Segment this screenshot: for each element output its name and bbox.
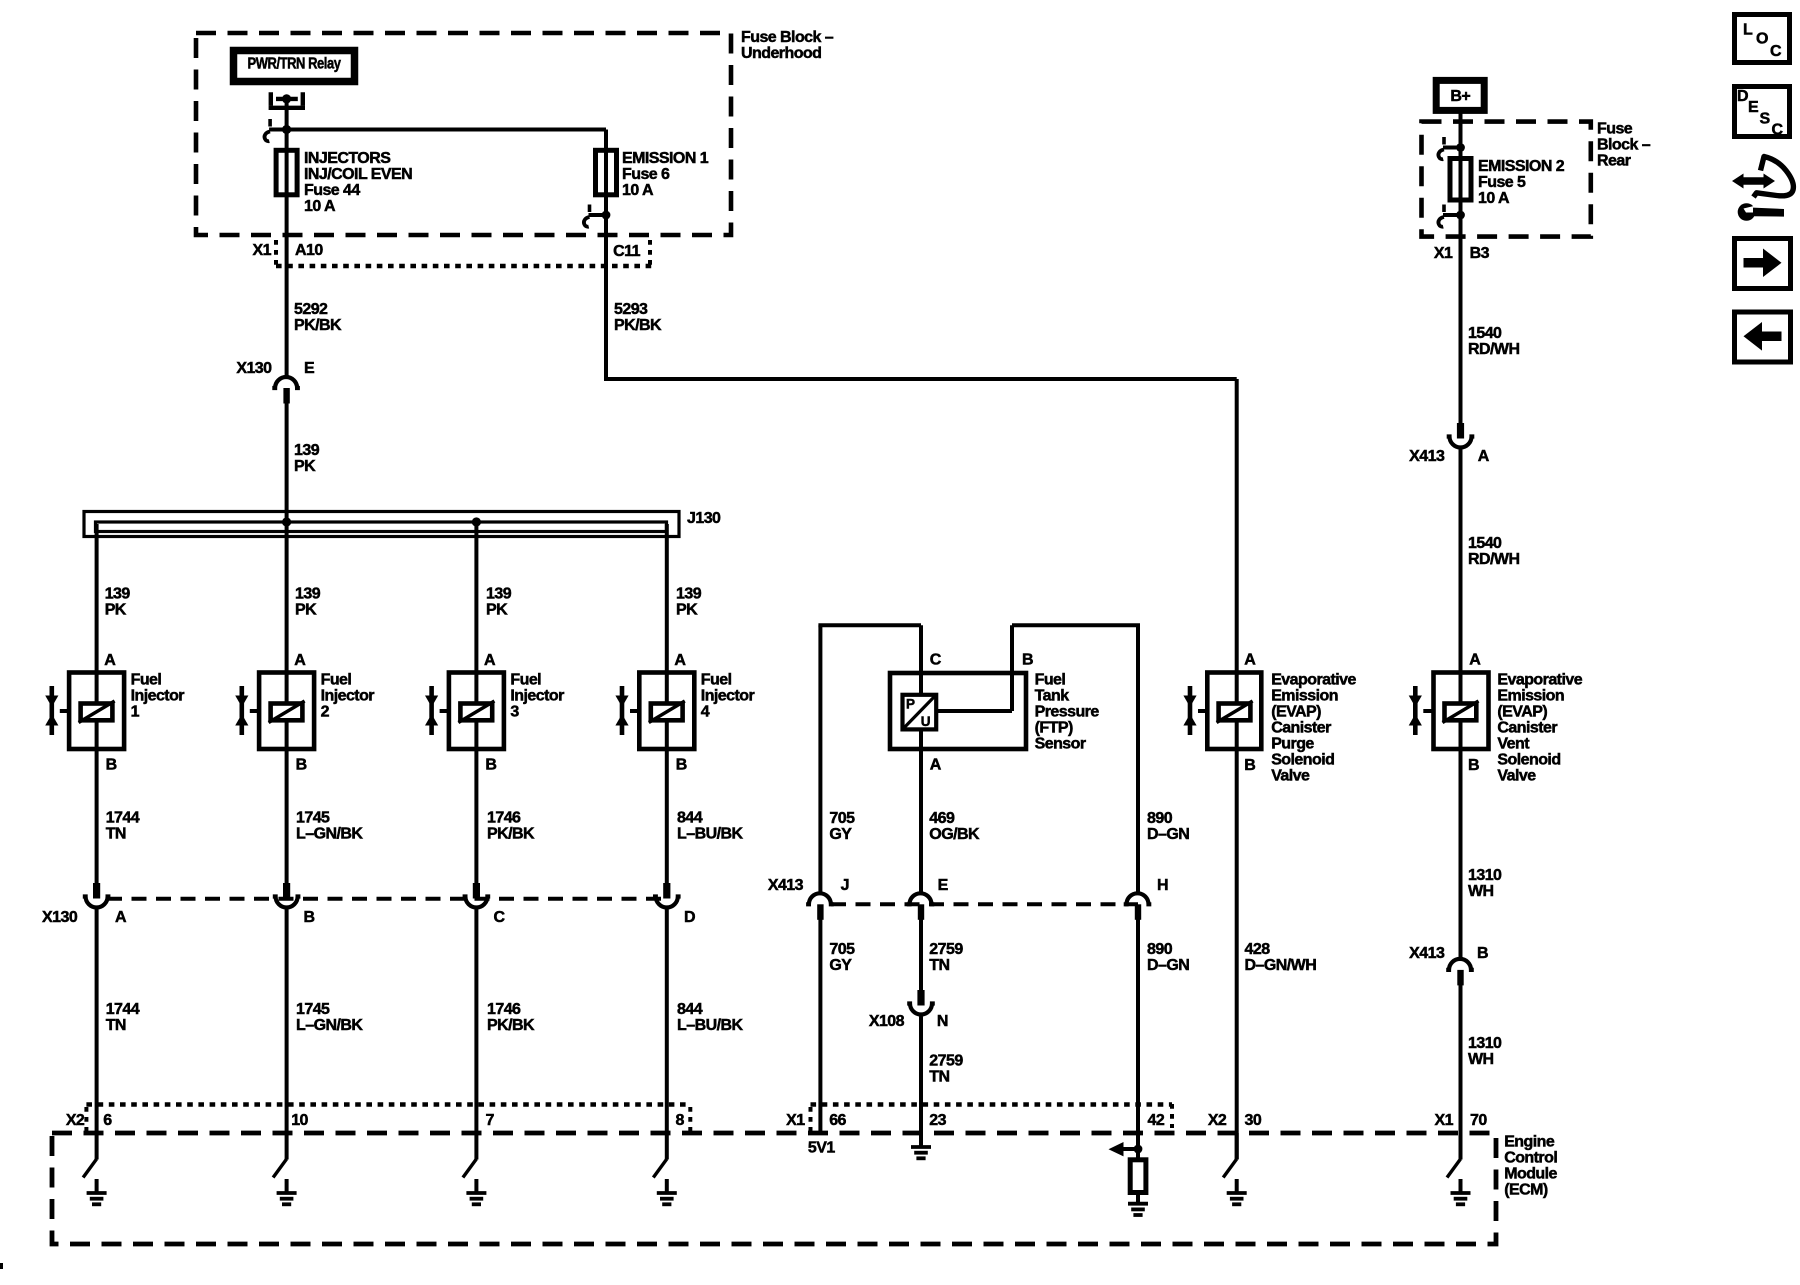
pin 8 label <box>676 1112 685 1129</box>
svg-text:139: 139 <box>486 586 512 603</box>
wire X130 B to ECM <box>285 910 289 1134</box>
fuse F44 INJECTORS <box>276 150 297 195</box>
FTP sensor internal P/U transducer <box>903 695 937 730</box>
svg-text:RD/WH: RD/WH <box>1468 551 1519 568</box>
svg-text:10 A: 10 A <box>622 182 654 199</box>
injector 2 pin A <box>294 652 306 669</box>
FTP pin C letter <box>930 651 942 668</box>
svg-text:RD/WH: RD/WH <box>1468 341 1519 358</box>
pin label X1 right <box>1435 1112 1454 1129</box>
svg-text:N: N <box>937 1013 948 1030</box>
svg-text:10 A: 10 A <box>304 198 336 215</box>
wire label 1744 lower <box>106 1001 140 1034</box>
svg-text:X413: X413 <box>1409 448 1445 465</box>
wire vent valve B down <box>1459 749 1463 959</box>
pin C11 <box>613 243 640 260</box>
svg-text:2: 2 <box>321 704 330 721</box>
wire relay output stem <box>285 101 289 377</box>
svg-text:1310: 1310 <box>1468 867 1502 884</box>
svg-text:4: 4 <box>701 704 710 721</box>
connector X108 pin N <box>907 990 935 1015</box>
fuel tank pressure sensor box <box>890 673 1026 749</box>
svg-text:X413: X413 <box>768 877 804 894</box>
wire fuse6 to evap purge valve <box>604 130 1237 674</box>
connector X413 pin H letter <box>1157 877 1168 894</box>
wire B+ to fuse 5 <box>1459 110 1463 424</box>
wire label 705 GY mid <box>829 941 855 974</box>
wire label 2759 TN mid <box>929 941 963 974</box>
svg-text:E: E <box>304 360 315 377</box>
svg-text:B: B <box>304 909 315 926</box>
svg-text:Fuse 6: Fuse 6 <box>622 166 670 183</box>
pin 6 label <box>103 1112 112 1129</box>
svg-text:L–GN/BK: L–GN/BK <box>296 825 363 842</box>
svg-text:42: 42 <box>1148 1112 1165 1129</box>
connector X130 row dashed line <box>107 897 668 901</box>
svg-text:C: C <box>1770 43 1782 60</box>
wire label 1310 WH upper <box>1468 867 1502 900</box>
svg-text:EMISSION 1: EMISSION 1 <box>622 150 709 167</box>
svg-text:C11: C11 <box>613 243 640 260</box>
wire FTP pin A down <box>919 729 923 893</box>
svg-text:Sensor: Sensor <box>1035 736 1086 753</box>
connector X130 pin A <box>83 883 111 908</box>
connector face X1 underhood dotted line <box>276 240 652 266</box>
pin label X1 <box>253 242 272 259</box>
svg-text:TN: TN <box>929 1069 949 1086</box>
svg-text:1540: 1540 <box>1468 535 1502 552</box>
svg-text:D: D <box>1737 88 1748 105</box>
svg-text:U: U <box>921 714 930 729</box>
connector X413 row dashed line <box>831 902 1138 906</box>
svg-text:Fuse 44: Fuse 44 <box>304 182 360 199</box>
svg-text:O: O <box>1756 31 1768 48</box>
net 5V1 label <box>808 1140 835 1157</box>
relay output clip <box>265 119 287 141</box>
fuse F6 EMISSION 1 <box>596 150 617 195</box>
svg-text:X108: X108 <box>869 1013 905 1030</box>
svg-text:X413: X413 <box>1409 945 1445 962</box>
svg-text:10 A: 10 A <box>1478 190 1510 207</box>
svg-text:B+: B+ <box>1450 88 1470 105</box>
svg-text:PK/BK: PK/BK <box>487 825 535 842</box>
wire 5293 PK/BK label <box>614 301 662 334</box>
ground ECM pin 70 <box>1447 1133 1471 1204</box>
connector X413 pin A <box>1447 423 1475 448</box>
arrow to other circuit at pin 42 <box>1109 1142 1139 1156</box>
svg-text:E: E <box>938 877 949 894</box>
svg-text:D–GN/WH: D–GN/WH <box>1245 957 1317 974</box>
svg-text:(EVAP): (EVAP) <box>1271 704 1321 721</box>
connector X130 pin B <box>273 883 301 908</box>
svg-text:Evaporative: Evaporative <box>1271 672 1356 689</box>
wire label 1540 RD/WH upper <box>1468 325 1519 358</box>
icon LOC box <box>1735 15 1790 63</box>
svg-text:1744: 1744 <box>106 1001 140 1018</box>
fuse F5 label <box>1478 158 1565 207</box>
connector X130 pin B letter <box>304 909 315 926</box>
wire X413 B to ECM pin 70 <box>1459 985 1463 1160</box>
svg-text:X2: X2 <box>66 1112 85 1129</box>
svg-text:3: 3 <box>510 704 519 721</box>
svg-text:1745: 1745 <box>296 1001 330 1018</box>
svg-text:2759: 2759 <box>929 941 963 958</box>
svg-text:Control: Control <box>1504 1150 1557 1167</box>
svg-text:Fuel: Fuel <box>321 672 352 689</box>
svg-text:B: B <box>1244 757 1255 774</box>
engine control module label <box>1504 1134 1557 1199</box>
svg-text:890: 890 <box>1147 810 1173 827</box>
svg-text:A: A <box>484 652 496 669</box>
svg-text:Injector: Injector <box>701 688 755 705</box>
pin label X2 left <box>66 1112 85 1129</box>
connector X413 B labels <box>1409 945 1488 962</box>
svg-text:Evaporative: Evaporative <box>1497 672 1582 689</box>
svg-text:1746: 1746 <box>487 809 521 826</box>
wire injector 1 pin B down <box>95 749 99 884</box>
wire X413 E to X108 <box>919 920 923 991</box>
svg-text:X1: X1 <box>253 242 272 259</box>
svg-text:OG/BK: OG/BK <box>929 826 980 843</box>
svg-text:WH: WH <box>1468 883 1494 900</box>
vent valve pin A letter <box>1469 651 1481 668</box>
svg-text:Purge: Purge <box>1271 736 1314 753</box>
svg-text:L–BU/BK: L–BU/BK <box>677 825 743 842</box>
injector 1 pin B <box>106 757 117 774</box>
svg-text:Fuel: Fuel <box>1035 672 1066 689</box>
pin 7 label <box>486 1112 495 1129</box>
svg-text:D–GN: D–GN <box>1147 826 1189 843</box>
svg-text:Tank: Tank <box>1035 688 1070 705</box>
ground ECM pin 30 <box>1223 1133 1247 1204</box>
pin label X2 right <box>1208 1112 1227 1129</box>
svg-text:PK/BK: PK/BK <box>294 317 342 334</box>
svg-text:Valve: Valve <box>1497 768 1536 785</box>
fuse F5 EMISSION 2 <box>1450 159 1471 201</box>
FTP pin B letter <box>1022 651 1033 668</box>
svg-text:S: S <box>1760 110 1771 127</box>
wire ECM pin 66 stub <box>818 1133 822 1135</box>
ground ECM pin 7 <box>463 1133 487 1204</box>
wire FTP pin B harness <box>1012 625 1140 893</box>
svg-text:705: 705 <box>829 941 855 958</box>
svg-text:Valve: Valve <box>1271 768 1310 785</box>
splice pack J130 <box>84 512 679 537</box>
fuse F44 label <box>304 150 412 215</box>
svg-text:Canister: Canister <box>1271 720 1331 737</box>
FTP pin A letter <box>930 757 942 774</box>
connector X130 pin A letter <box>115 909 127 926</box>
svg-text:Canister: Canister <box>1497 720 1557 737</box>
EVAP canister vent solenoid valve <box>1409 672 1583 785</box>
svg-text:Engine: Engine <box>1504 1134 1555 1151</box>
page artifact mark <box>0 1263 3 1269</box>
fuse block underhood label <box>741 29 834 62</box>
svg-text:Fuel: Fuel <box>510 672 541 689</box>
svg-text:GY: GY <box>829 957 852 974</box>
svg-text:X130: X130 <box>42 909 78 926</box>
svg-text:GY: GY <box>829 826 852 843</box>
wire 139 PK label top <box>294 442 320 475</box>
svg-text:1540: 1540 <box>1468 325 1502 342</box>
icon arrow-wrench <box>1732 157 1793 221</box>
svg-text:J: J <box>841 877 849 894</box>
connector X413 pin B <box>1446 959 1474 986</box>
wire injector 3 pin B down <box>474 749 478 884</box>
vent valve pin B letter <box>1468 757 1479 774</box>
svg-text:7: 7 <box>486 1112 495 1129</box>
connector face X1 dotted line <box>811 1104 1173 1131</box>
svg-text:844: 844 <box>677 809 703 826</box>
wire 139 PK label 3 <box>486 586 512 619</box>
svg-text:2759: 2759 <box>929 1053 963 1070</box>
svg-text:C: C <box>494 909 506 926</box>
wire 139 PK label 2 <box>295 586 321 619</box>
connector X130 pin C <box>463 883 491 908</box>
svg-text:Fuel: Fuel <box>131 672 162 689</box>
svg-text:J130: J130 <box>687 510 721 527</box>
svg-text:B: B <box>296 757 307 774</box>
wire label 1540 RD/WH lower <box>1468 535 1519 568</box>
svg-text:X1: X1 <box>1435 1112 1454 1129</box>
svg-text:H: H <box>1157 877 1168 894</box>
wire label 428 D–GN/WH mid <box>1245 941 1317 974</box>
svg-text:L: L <box>1743 21 1753 38</box>
connector X130 pin D <box>653 883 681 908</box>
wire label 2759 TN lower <box>929 1053 963 1086</box>
fuel injector 3 <box>425 672 564 749</box>
pin A10 <box>295 242 323 259</box>
pin 66 label <box>829 1112 846 1129</box>
svg-text:1310: 1310 <box>1468 1035 1502 1052</box>
svg-text:C: C <box>930 651 942 668</box>
svg-text:Pressure: Pressure <box>1035 704 1100 721</box>
fuse block rear label <box>1597 121 1651 170</box>
pin labels X1 B3 rear <box>1434 245 1490 262</box>
wire label 1745 lower <box>296 1001 363 1034</box>
svg-text:WH: WH <box>1468 1051 1494 1068</box>
svg-text:Solenoid: Solenoid <box>1271 752 1334 769</box>
svg-text:A10: A10 <box>295 242 323 259</box>
svg-text:B: B <box>485 757 496 774</box>
svg-text:(FTP): (FTP) <box>1035 720 1073 737</box>
wire injector 2 pin B down <box>285 749 289 884</box>
wire X130 D to ECM <box>665 910 669 1134</box>
svg-text:10: 10 <box>291 1112 308 1129</box>
svg-text:A: A <box>1469 651 1481 668</box>
svg-text:L–BU/BK: L–BU/BK <box>677 1017 743 1034</box>
svg-text:Emission: Emission <box>1497 688 1564 705</box>
svg-text:469: 469 <box>929 810 955 827</box>
svg-text:139: 139 <box>294 442 320 459</box>
svg-text:P: P <box>906 697 915 712</box>
connector X413 A labels <box>1409 448 1490 465</box>
svg-text:139: 139 <box>105 586 131 603</box>
wire label 469 OG/BK upper <box>929 810 980 843</box>
svg-text:139: 139 <box>295 586 321 603</box>
wire label 1744 upper <box>106 809 140 842</box>
EVAP canister purge solenoid valve <box>1183 672 1356 785</box>
icon DESC box <box>1735 87 1790 139</box>
fuse block underhood dashed box <box>196 33 731 235</box>
injector 1 pin A <box>104 652 116 669</box>
svg-text:PK/BK: PK/BK <box>614 317 662 334</box>
wire splice to injector 4 <box>665 524 669 673</box>
ground ECM pin 8 <box>653 1133 677 1204</box>
wire injector 4 pin B down <box>665 749 669 884</box>
node splice J130 junction 2 <box>472 517 481 526</box>
fuel injector 4 <box>615 672 754 749</box>
svg-text:PK: PK <box>676 602 698 619</box>
svg-text:Underhood: Underhood <box>741 45 821 62</box>
pin 70 label <box>1470 1112 1487 1129</box>
svg-text:B: B <box>106 757 117 774</box>
svg-text:1746: 1746 <box>487 1001 521 1018</box>
svg-text:Rear: Rear <box>1597 153 1631 170</box>
ground ECM pin 42 resistor <box>1128 1193 1148 1216</box>
svg-text:Fuse Block –: Fuse Block – <box>741 29 834 46</box>
svg-text:B: B <box>1468 757 1479 774</box>
svg-text:Vent: Vent <box>1497 736 1530 753</box>
wire label 1746 lower <box>487 1001 535 1034</box>
wire X130 A to ECM <box>95 910 99 1134</box>
svg-text:PK: PK <box>486 602 508 619</box>
fuel injector 1 <box>45 672 184 749</box>
svg-text:428: 428 <box>1245 941 1271 958</box>
connector X413 pin E letter <box>938 877 949 894</box>
wire splice to injector 3 <box>474 524 478 673</box>
svg-text:70: 70 <box>1470 1112 1487 1129</box>
svg-text:E: E <box>1748 99 1759 116</box>
svg-text:5292: 5292 <box>294 301 328 318</box>
svg-text:30: 30 <box>1245 1112 1262 1129</box>
pin 23 label <box>929 1112 946 1129</box>
injector 4 pin B <box>676 757 687 774</box>
svg-text:A: A <box>930 757 942 774</box>
wire label 844 upper <box>677 809 743 842</box>
svg-text:Injector: Injector <box>321 688 375 705</box>
wire X413 H to ECM pin 42 <box>1136 920 1140 1150</box>
svg-text:PK: PK <box>105 602 127 619</box>
resistor ECM internal <box>1130 1149 1146 1193</box>
injector 2 pin B <box>296 757 307 774</box>
wire relay junction to emission1 fuse <box>287 128 606 132</box>
wire splice to injector 2 <box>285 524 289 673</box>
svg-text:B: B <box>1477 945 1488 962</box>
wire label 890 D–GN mid <box>1147 941 1189 974</box>
relay PWR/TRN contact symbol <box>269 92 305 108</box>
icon back arrow box <box>1735 312 1791 362</box>
svg-text:Injector: Injector <box>131 688 185 705</box>
svg-text:A: A <box>115 909 127 926</box>
engine control module dashed box <box>52 1133 1496 1244</box>
svg-text:D–GN: D–GN <box>1147 957 1189 974</box>
svg-text:(ECM): (ECM) <box>1504 1182 1548 1199</box>
svg-text:Injector: Injector <box>510 688 564 705</box>
svg-text:Fuse 5: Fuse 5 <box>1478 174 1526 191</box>
wire 139 PK label 1 <box>105 586 131 619</box>
wire label 890 D–GN upper <box>1147 810 1189 843</box>
connector X413 pin E <box>907 893 935 920</box>
wire FTP internal B link <box>936 709 1012 713</box>
connector X130 pin E <box>272 377 300 404</box>
svg-text:PK: PK <box>295 602 317 619</box>
wire X130 E to splice J130 <box>285 403 289 522</box>
svg-text:B: B <box>676 757 687 774</box>
svg-text:INJECTORS: INJECTORS <box>304 150 391 167</box>
wire X413 J to ECM pin 66 <box>818 920 822 1134</box>
svg-text:X2: X2 <box>1208 1112 1227 1129</box>
ground ECM pin 23 <box>911 1133 931 1158</box>
injector 3 pin A <box>484 652 496 669</box>
svg-text:B: B <box>1022 651 1033 668</box>
svg-text:PK/BK: PK/BK <box>487 1017 535 1034</box>
svg-text:PWR/TRN Relay: PWR/TRN Relay <box>248 56 342 73</box>
wire purge valve B to ECM pin 30 <box>1235 749 1239 1160</box>
fuel injector 2 <box>235 672 374 749</box>
svg-text:A: A <box>1244 651 1256 668</box>
svg-text:844: 844 <box>677 1001 703 1018</box>
svg-text:Fuel: Fuel <box>701 672 732 689</box>
wire 139 PK label 4 <box>676 586 702 619</box>
svg-text:TN: TN <box>106 825 126 842</box>
connector X413 pin J <box>806 893 834 920</box>
svg-text:705: 705 <box>829 810 855 827</box>
relay PWR/TRN Relay name box <box>234 51 355 82</box>
svg-text:EMISSION 2: EMISSION 2 <box>1478 158 1565 175</box>
wire FTP pin C harness <box>818 625 921 893</box>
wire label 1745 upper <box>296 809 363 842</box>
svg-text:5293: 5293 <box>614 301 648 318</box>
connector X130 pin C letter <box>494 909 506 926</box>
wire label 1310 WH lower <box>1468 1035 1502 1068</box>
node splice J130 junction 1 <box>282 517 291 526</box>
battery feed B+ box <box>1436 80 1484 110</box>
svg-text:1: 1 <box>131 704 140 721</box>
fuse F5 lower clip <box>1438 205 1464 227</box>
ground ECM pin 6 <box>83 1133 107 1204</box>
svg-text:A: A <box>104 652 116 669</box>
pin 30 label <box>1245 1112 1262 1129</box>
svg-text:TN: TN <box>929 957 949 974</box>
svg-text:B3: B3 <box>1470 245 1490 262</box>
svg-text:(EVAP): (EVAP) <box>1497 704 1547 721</box>
injector 4 pin A <box>674 652 686 669</box>
svg-text:D: D <box>684 909 695 926</box>
svg-text:1745: 1745 <box>296 809 330 826</box>
svg-text:A: A <box>1478 448 1490 465</box>
svg-text:8: 8 <box>676 1112 685 1129</box>
svg-text:Emission: Emission <box>1271 688 1338 705</box>
wire 5292 PK/BK label <box>294 301 342 334</box>
wire label 1746 upper <box>487 809 535 842</box>
wire X413 A to vent valve <box>1459 450 1463 674</box>
ground ECM pin 10 <box>273 1133 297 1204</box>
svg-text:TN: TN <box>106 1017 126 1034</box>
fuse block rear dashed box <box>1422 122 1591 237</box>
pin 42 label <box>1148 1112 1165 1129</box>
fuse F5 upper clip <box>1438 137 1464 159</box>
svg-text:A: A <box>674 652 686 669</box>
FTP sensor label <box>1035 672 1100 753</box>
purge valve pin A letter <box>1244 651 1256 668</box>
splice J130 label <box>687 510 721 527</box>
fuse F6 label <box>622 150 709 199</box>
svg-text:Fuse: Fuse <box>1597 121 1633 138</box>
connector X108 labels <box>869 1013 948 1030</box>
svg-text:890: 890 <box>1147 941 1173 958</box>
svg-text:PK: PK <box>294 458 316 475</box>
